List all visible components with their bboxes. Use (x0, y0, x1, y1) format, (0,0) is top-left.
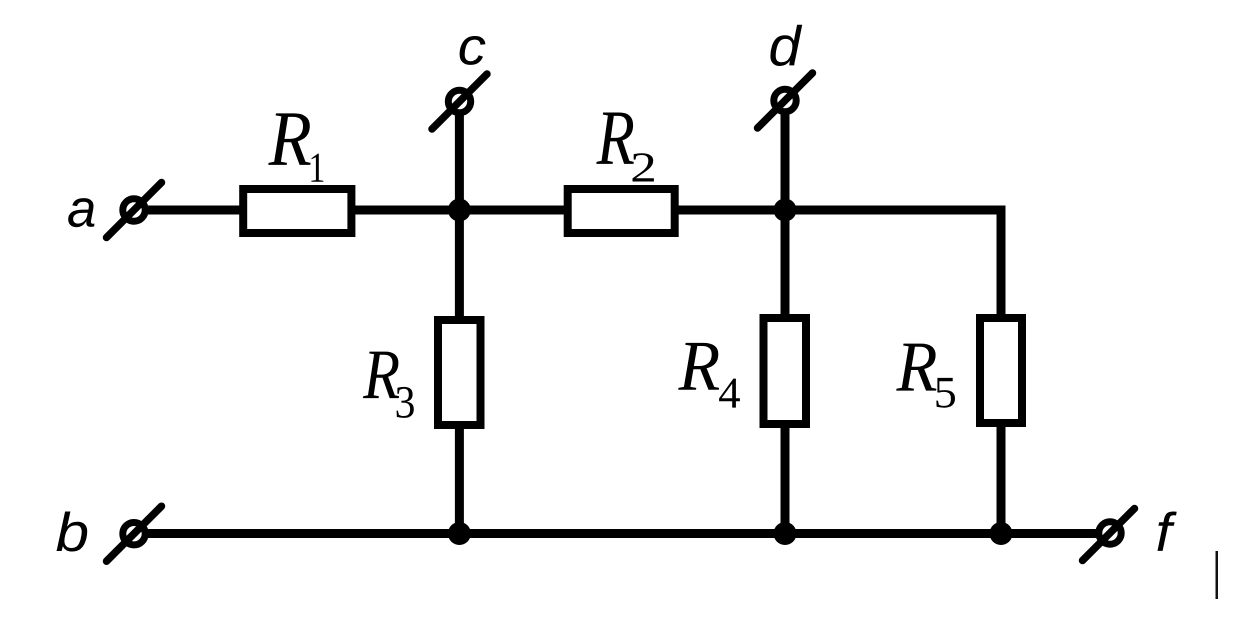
terminal f circle (1099, 522, 1121, 544)
wire R1 to R2 (355, 206, 568, 215)
node junction c (448, 199, 471, 222)
label R2 subscript 2 (633, 153, 654, 181)
resistor R4 (764, 318, 807, 424)
label c (460, 36, 486, 65)
wire a to R1 (147, 206, 243, 215)
label f (1158, 512, 1177, 551)
wire terminal c down to R3 (455, 112, 464, 320)
label a (68, 198, 94, 227)
terminal d circle (774, 89, 796, 111)
terminal a slash (107, 183, 162, 238)
wire R2 to corner via node d (678, 210, 1001, 314)
label R4 (678, 343, 719, 390)
label R4 subscript 4 (719, 379, 740, 408)
terminal b circle (123, 523, 145, 545)
label R1 (268, 113, 310, 164)
wire R5 to bottom rail (997, 427, 1006, 534)
resistor R3 (438, 320, 481, 425)
terminal d slash (758, 73, 813, 128)
label R2 (596, 113, 634, 164)
label R5 subscript 5 (936, 378, 955, 408)
node junction d (774, 199, 797, 222)
label d (770, 25, 802, 66)
node junction rail-R3 (448, 522, 471, 545)
node junction rail-R4 (774, 522, 797, 545)
text cursor bar (1216, 551, 1219, 599)
terminal c slash (432, 74, 487, 129)
label R1 subscript 1 (311, 154, 323, 182)
resistor R1 (243, 189, 351, 233)
terminal c circle (448, 90, 470, 112)
terminal a circle (123, 199, 145, 221)
wire R3 to bottom rail (455, 429, 464, 534)
resistor R2 (568, 189, 675, 233)
bottom rail wire b to f (147, 529, 1096, 538)
wire terminal d down to R4 (781, 113, 790, 318)
node junction rail-R5 (990, 522, 1013, 545)
label R3 subscript 3 (397, 387, 414, 418)
label R5 (896, 344, 936, 391)
label b (57, 512, 88, 552)
label R3 (363, 352, 399, 399)
wire R4 to bottom rail (781, 428, 790, 534)
resistor R5 (980, 318, 1022, 423)
terminal f slash (1083, 509, 1135, 561)
terminal b slash (107, 506, 162, 561)
